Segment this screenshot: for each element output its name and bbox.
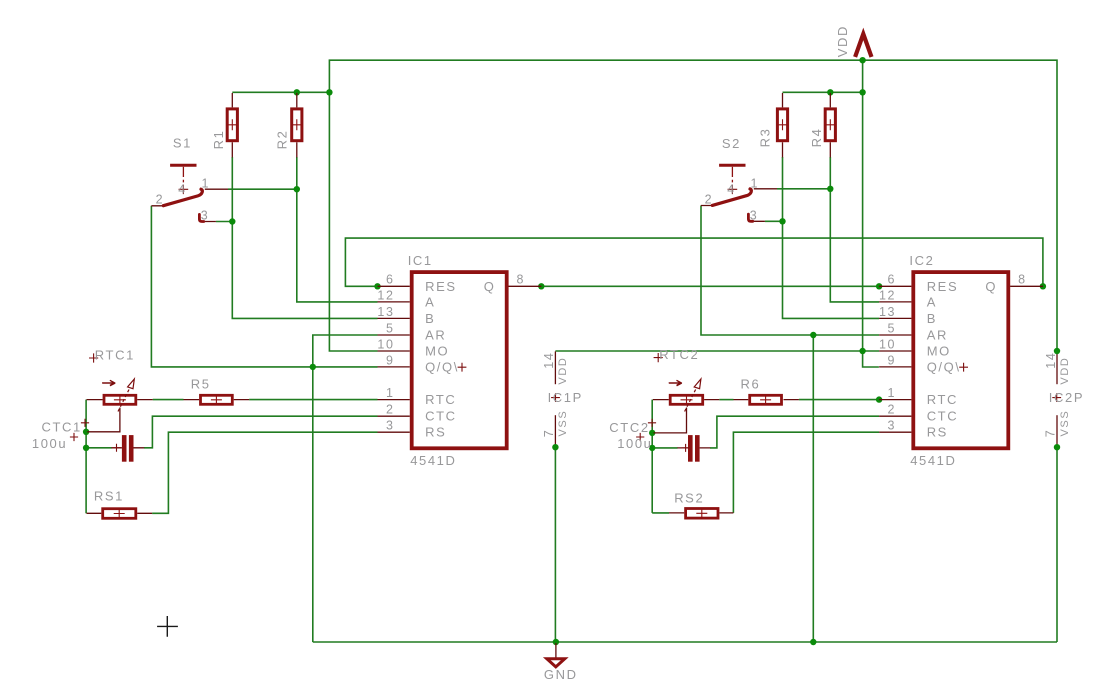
svg-text:RTC: RTC <box>927 392 958 407</box>
svg-text:MO: MO <box>927 344 951 359</box>
svg-text:IC1: IC1 <box>408 253 433 268</box>
svg-text:6: 6 <box>888 273 897 287</box>
svg-text:RS2: RS2 <box>674 491 704 506</box>
svg-text:CTC2: CTC2 <box>609 420 649 435</box>
svg-text:AR: AR <box>927 328 948 343</box>
svg-text:5: 5 <box>386 321 395 335</box>
svg-text:14: 14 <box>1044 352 1058 369</box>
svg-text:2: 2 <box>888 403 897 417</box>
svg-text:RS1: RS1 <box>94 489 124 504</box>
svg-text:100u: 100u <box>32 436 67 451</box>
svg-text:2: 2 <box>705 192 714 206</box>
svg-text:Q/Q\: Q/Q\ <box>425 359 459 374</box>
svg-text:B: B <box>425 311 435 326</box>
svg-text:RS: RS <box>927 425 948 440</box>
svg-text:A: A <box>425 294 435 309</box>
svg-text:R1: R1 <box>211 130 226 150</box>
svg-text:RTC: RTC <box>425 392 456 407</box>
svg-text:B: B <box>927 311 937 326</box>
svg-text:3: 3 <box>750 209 759 223</box>
svg-text:1: 1 <box>751 176 760 190</box>
svg-text:1: 1 <box>386 386 395 400</box>
svg-text:7: 7 <box>542 429 556 438</box>
svg-text:CTC1: CTC1 <box>42 420 82 435</box>
svg-text:VDD: VDD <box>835 25 850 57</box>
svg-text:RTC2: RTC2 <box>659 347 699 362</box>
svg-text:9: 9 <box>386 353 395 367</box>
svg-text:1: 1 <box>202 176 211 190</box>
svg-text:S2: S2 <box>722 136 741 151</box>
svg-text:RS: RS <box>425 425 446 440</box>
svg-text:RES: RES <box>425 279 457 294</box>
svg-text:3: 3 <box>201 209 210 223</box>
svg-text:AR: AR <box>425 328 446 343</box>
svg-text:1: 1 <box>888 386 897 400</box>
svg-text:Q/Q\: Q/Q\ <box>927 359 961 374</box>
svg-text:R5: R5 <box>191 377 211 392</box>
svg-text:CTC: CTC <box>425 409 457 424</box>
svg-text:10: 10 <box>879 337 896 351</box>
svg-text:R4: R4 <box>809 128 824 148</box>
svg-text:Q: Q <box>484 279 496 294</box>
svg-text:8: 8 <box>517 273 526 287</box>
svg-text:8: 8 <box>1018 273 1027 287</box>
svg-text:IC2P: IC2P <box>1049 390 1084 405</box>
svg-text:RTC1: RTC1 <box>95 347 135 362</box>
svg-text:4: 4 <box>178 183 187 197</box>
svg-text:3: 3 <box>386 419 395 433</box>
svg-text:4: 4 <box>727 183 736 197</box>
svg-text:2: 2 <box>156 192 165 206</box>
svg-text:3: 3 <box>888 419 897 433</box>
svg-text:VSS: VSS <box>557 410 569 437</box>
svg-text:IC1P: IC1P <box>548 390 583 405</box>
svg-text:MO: MO <box>425 344 449 359</box>
svg-text:4541D: 4541D <box>910 453 956 468</box>
svg-text:13: 13 <box>377 305 394 319</box>
svg-text:GND: GND <box>544 667 578 682</box>
svg-text:4541D: 4541D <box>410 453 456 468</box>
svg-text:VDD: VDD <box>557 357 569 385</box>
svg-text:R2: R2 <box>274 130 289 150</box>
svg-text:S1: S1 <box>173 136 192 151</box>
svg-text:A: A <box>927 294 937 309</box>
svg-text:9: 9 <box>888 353 897 367</box>
svg-text:5: 5 <box>888 321 897 335</box>
svg-text:10: 10 <box>377 337 394 351</box>
svg-text:CTC: CTC <box>927 409 959 424</box>
svg-text:6: 6 <box>386 273 395 287</box>
svg-text:100u: 100u <box>617 436 652 451</box>
svg-text:14: 14 <box>542 352 556 369</box>
svg-text:IC2: IC2 <box>909 253 934 268</box>
svg-text:13: 13 <box>879 305 896 319</box>
svg-text:VSS: VSS <box>1059 410 1071 437</box>
svg-text:12: 12 <box>879 288 896 302</box>
svg-text:Q: Q <box>985 279 997 294</box>
svg-text:2: 2 <box>386 403 395 417</box>
svg-text:R6: R6 <box>741 377 761 392</box>
svg-text:R3: R3 <box>757 128 772 148</box>
svg-text:12: 12 <box>377 288 394 302</box>
svg-text:RES: RES <box>927 279 959 294</box>
svg-text:VDD: VDD <box>1059 357 1071 385</box>
svg-text:7: 7 <box>1044 429 1058 438</box>
